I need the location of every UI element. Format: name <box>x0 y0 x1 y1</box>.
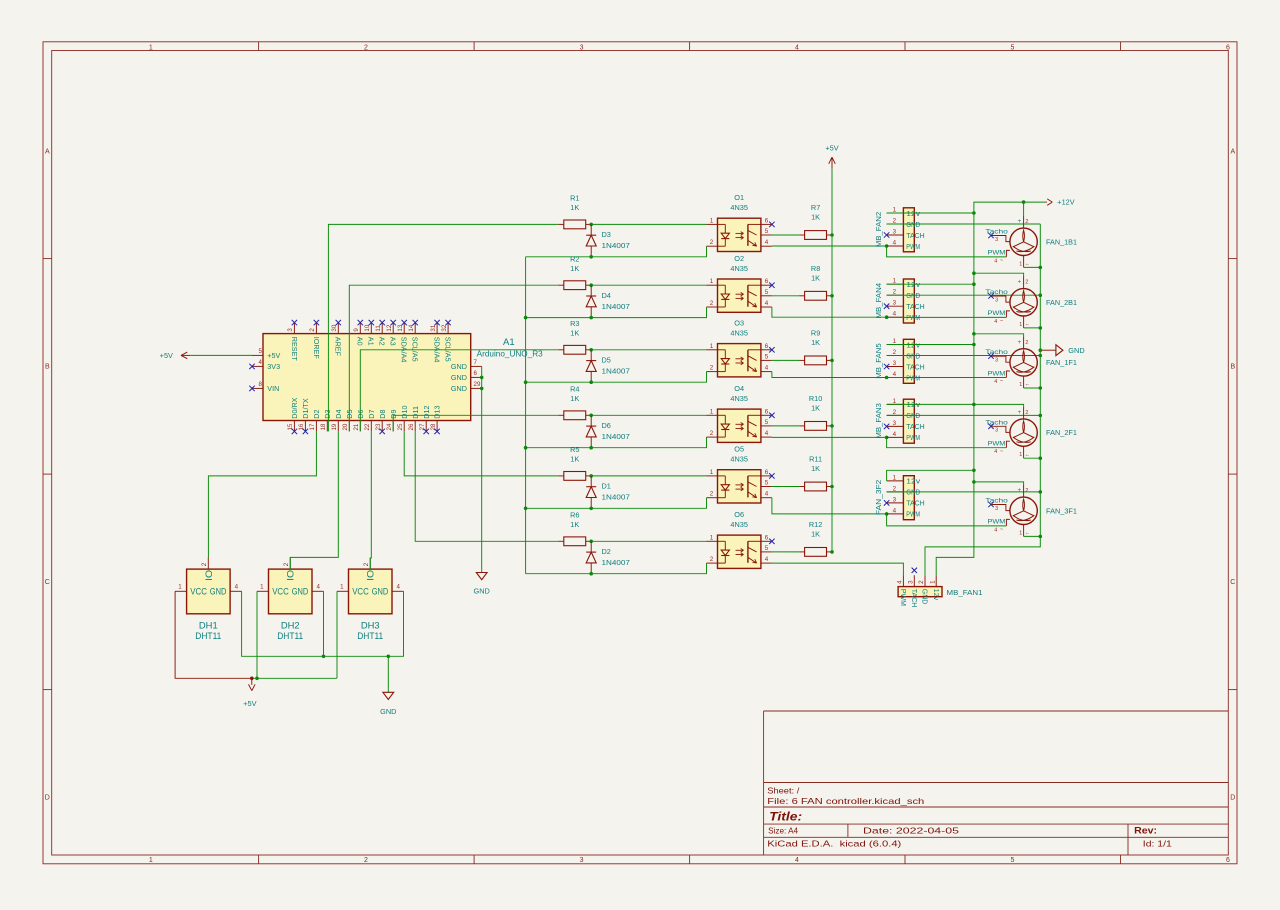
svg-text:4N35: 4N35 <box>730 394 748 403</box>
svg-text:4: 4 <box>795 857 799 864</box>
svg-text:B: B <box>1230 364 1235 371</box>
svg-text:19: 19 <box>331 423 338 430</box>
power symbol +5V left <box>160 351 191 360</box>
svg-text:GND: GND <box>451 373 467 382</box>
DHT11 sensor DH2 <box>257 558 324 642</box>
wire cathode bus row 1 <box>526 246 707 257</box>
no-connect MB_FAN2 pin3 TACH <box>884 232 889 237</box>
junction 12v rail MB_FAN3 <box>972 403 976 407</box>
svg-text:16: 16 <box>298 423 305 430</box>
junction D3 cathode bus <box>589 255 593 259</box>
svg-text:1N4007: 1N4007 <box>602 302 630 311</box>
svg-text:4: 4 <box>765 491 769 498</box>
junction DH2 vcc <box>255 677 259 681</box>
svg-text:18: 18 <box>320 423 327 430</box>
svg-text:A1: A1 <box>503 337 515 348</box>
svg-text:~: ~ <box>1000 258 1003 264</box>
svg-text:PWM: PWM <box>988 519 1006 526</box>
svg-text:+: + <box>1018 218 1022 225</box>
svg-text:4: 4 <box>316 583 320 590</box>
svg-text:R2: R2 <box>570 254 579 263</box>
svg-text:R4: R4 <box>570 384 579 393</box>
svg-text:B: B <box>45 364 50 371</box>
svg-text:4N35: 4N35 <box>730 520 748 529</box>
svg-text:GND: GND <box>474 587 490 596</box>
svg-text:1K: 1K <box>811 529 820 538</box>
svg-text:~: ~ <box>1000 449 1003 455</box>
junction D1 cathode bus <box>589 507 593 511</box>
diode D3 1N4007 <box>586 224 630 256</box>
svg-text:5: 5 <box>1011 44 1015 51</box>
arduino top pins (no-connect) <box>287 320 452 362</box>
diode D4 1N4007 <box>586 285 630 317</box>
svg-text:2: 2 <box>363 562 370 566</box>
svg-text:1N4007: 1N4007 <box>602 432 630 441</box>
wire gnd rail <box>925 224 1040 575</box>
wire FAN_3F2 GND to rail <box>887 491 1041 493</box>
svg-text:A0: A0 <box>356 337 365 346</box>
resistor R8 1K <box>799 264 832 300</box>
svg-text:FAN_2B1: FAN_2B1 <box>1046 298 1077 307</box>
ground symbol below DHT <box>380 692 396 716</box>
no-connect fan FAN_2B1 tacho <box>988 293 993 298</box>
no-connect opto O2 pin6 <box>769 283 774 288</box>
fan motor FAN_1F1 <box>985 337 1077 388</box>
junction bus row 4 <box>524 446 528 450</box>
wire opto O4 pin4 to connector MB_FAN3 <box>772 436 887 438</box>
resistor R4 1K <box>558 384 591 419</box>
svg-text:C: C <box>1230 579 1235 586</box>
wire arduino D3 to R1 <box>328 224 558 431</box>
svg-text:D: D <box>45 795 50 802</box>
svg-text:4: 4 <box>994 527 997 533</box>
svg-text:1: 1 <box>893 474 897 481</box>
svg-text:5: 5 <box>1011 857 1015 864</box>
svg-text:MB_FAN2: MB_FAN2 <box>874 212 883 248</box>
wire fan FAN_1F1 gnd bracket <box>1024 387 1041 389</box>
svg-text:30: 30 <box>331 324 338 331</box>
svg-text:11: 11 <box>375 325 382 332</box>
svg-text:MB_FAN5: MB_FAN5 <box>874 343 883 379</box>
svg-text:File: 6 FAN controller.kicad_s: File: 6 FAN controller.kicad_sch <box>767 796 924 806</box>
svg-text:29: 29 <box>474 381 481 388</box>
junction D6 cathode bus <box>589 446 593 450</box>
svg-text:1: 1 <box>710 534 714 541</box>
svg-text:A: A <box>1230 148 1235 155</box>
power symbol +5V bottom <box>243 678 256 708</box>
svg-text:14: 14 <box>408 324 415 331</box>
svg-text:R11: R11 <box>809 455 822 464</box>
svg-text:PWM: PWM <box>899 589 906 606</box>
junction gnd symbol <box>1039 348 1043 352</box>
svg-text:2: 2 <box>201 562 208 566</box>
svg-text:SCL/A5: SCL/A5 <box>444 337 453 362</box>
svg-text:31: 31 <box>430 324 437 331</box>
resistor R1 1K <box>558 194 591 229</box>
diode D1 1N4007 <box>586 476 630 508</box>
svg-text:5: 5 <box>765 353 769 360</box>
svg-text:R7: R7 <box>811 203 820 212</box>
junction R5-D1 <box>589 474 593 478</box>
svg-text:VCC: VCC <box>190 586 207 596</box>
svg-text:IO: IO <box>204 570 214 581</box>
opto-coupler O1 4N35 <box>707 193 772 252</box>
svg-text:←: ← <box>1025 530 1030 536</box>
wire fan FAN_1F1 pwm <box>887 377 1007 379</box>
svg-text:28: 28 <box>430 423 437 430</box>
svg-text:4: 4 <box>765 300 769 307</box>
svg-text:2: 2 <box>710 300 714 307</box>
resistor R9 1K <box>799 328 832 364</box>
svg-text:D0/RX: D0/RX <box>290 397 299 418</box>
no-connect MB_FAN1 pin3 <box>912 568 917 573</box>
svg-text:GND: GND <box>451 362 467 371</box>
svg-text:4: 4 <box>994 379 997 385</box>
svg-text:PWM: PWM <box>988 310 1006 317</box>
arduino U-module A1 body <box>263 334 471 421</box>
svg-text:4: 4 <box>893 507 897 514</box>
svg-text:1: 1 <box>149 44 153 51</box>
svg-text:1: 1 <box>929 580 936 584</box>
svg-text:12v: 12v <box>932 589 939 601</box>
no-connect fan FAN_1F1 tacho <box>988 353 993 358</box>
wire fan FAN_2B1 gnd bracket <box>1024 327 1041 329</box>
svg-text:3: 3 <box>580 857 584 864</box>
wire R5 to opto O5 pin1 <box>591 475 706 477</box>
svg-text:4: 4 <box>897 580 904 584</box>
wire opto pin5 to R9 <box>772 359 799 361</box>
junction R1-D3 <box>589 223 593 227</box>
svg-text:+5V: +5V <box>267 351 280 360</box>
svg-text:VCC: VCC <box>272 586 289 596</box>
svg-text:13: 13 <box>397 324 404 331</box>
svg-text:2: 2 <box>710 239 714 246</box>
svg-text:O6: O6 <box>734 510 744 519</box>
svg-text:8: 8 <box>259 381 263 388</box>
fan motor FAN_2B1 <box>985 277 1077 328</box>
svg-text:GND: GND <box>292 586 309 596</box>
junction gnd symbol drop <box>387 655 391 659</box>
ground symbol right <box>1040 345 1084 356</box>
wire DHT vcc bus red <box>175 591 252 678</box>
junction R4-D6 <box>589 414 593 418</box>
wire D7 to DH3 IO <box>370 431 371 569</box>
opto-coupler O2 4N35 <box>707 254 772 313</box>
svg-text:23: 23 <box>375 423 382 430</box>
junction fan FAN_1B1 gnd <box>1039 266 1043 270</box>
svg-text:FAN_3F2: FAN_3F2 <box>874 480 883 516</box>
svg-text:22: 22 <box>364 423 371 430</box>
svg-text:3: 3 <box>893 420 897 427</box>
svg-text:TACH: TACH <box>906 422 924 431</box>
svg-text:3: 3 <box>995 237 998 243</box>
junction fan FAN_2B1 gnd <box>1039 326 1043 330</box>
wire FAN_3F2 12v to rail <box>887 470 974 481</box>
junction R10 +5V rail <box>830 424 834 428</box>
wire opto pin5 to R12 <box>772 551 799 553</box>
wire fan FAN_3F1 +12v feed <box>974 482 1024 485</box>
svg-text:A1: A1 <box>367 337 376 346</box>
svg-text:D: D <box>1230 795 1235 802</box>
resistor R11 1K <box>799 455 832 491</box>
svg-text:1N4007: 1N4007 <box>602 493 630 502</box>
svg-text:DHT11: DHT11 <box>277 630 303 641</box>
svg-text:4: 4 <box>396 583 400 590</box>
svg-text:5: 5 <box>765 545 769 552</box>
svg-text:+5V: +5V <box>160 351 173 360</box>
no-connect fan FAN_2F1 tacho <box>988 424 993 429</box>
fan motor FAN_2F1 <box>985 407 1077 458</box>
wire fan FAN_1B1 gnd bracket <box>1024 266 1041 268</box>
svg-text:←: ← <box>1025 261 1030 267</box>
svg-text:MB_FAN1: MB_FAN1 <box>947 588 983 597</box>
svg-text:1K: 1K <box>570 455 579 464</box>
svg-text:AREF: AREF <box>334 337 343 357</box>
wire MB_FAN4 GND to rail <box>887 294 1041 296</box>
svg-text:R5: R5 <box>570 445 579 454</box>
svg-text:Date: 2022-04-05: Date: 2022-04-05 <box>863 826 959 836</box>
junction fan1 +12v <box>1022 200 1026 204</box>
svg-text:20: 20 <box>342 423 349 430</box>
wire fan FAN_3F1 pwm <box>887 514 1007 526</box>
wire R4 to opto O4 pin1 <box>591 414 706 416</box>
svg-text:D3: D3 <box>323 409 332 418</box>
svg-text:O4: O4 <box>734 384 744 393</box>
svg-text:+5V: +5V <box>243 699 256 708</box>
svg-text:2: 2 <box>309 328 316 332</box>
svg-text:1: 1 <box>710 469 714 476</box>
svg-text:D2: D2 <box>602 547 611 556</box>
svg-text:O1: O1 <box>734 193 744 202</box>
junction R7 +5V rail <box>830 233 834 237</box>
svg-text:RESET: RESET <box>290 337 299 362</box>
svg-text:5: 5 <box>765 419 769 426</box>
svg-text:17: 17 <box>309 423 316 430</box>
svg-text:PWM: PWM <box>906 242 920 251</box>
svg-text:27: 27 <box>419 423 426 430</box>
svg-text:3: 3 <box>995 297 998 303</box>
svg-text:12v: 12v <box>906 477 920 486</box>
svg-text:3: 3 <box>893 360 897 367</box>
svg-text:FAN_1F1: FAN_1F1 <box>1046 358 1077 367</box>
junction D4 cathode bus <box>589 316 593 320</box>
svg-text:+: + <box>1018 409 1022 416</box>
svg-text:25: 25 <box>397 423 404 430</box>
wire R2 to opto O2 pin1 <box>591 284 706 286</box>
svg-text:3V3: 3V3 <box>267 362 280 371</box>
svg-text:D4: D4 <box>602 291 611 300</box>
svg-text:2: 2 <box>893 289 897 296</box>
svg-text:2: 2 <box>1025 410 1028 416</box>
junction gnd rail MB_FAN5 <box>1039 354 1043 358</box>
opto-coupler O4 4N35 <box>707 384 772 443</box>
junction R6-D2 <box>589 540 593 544</box>
svg-text:3: 3 <box>893 228 897 235</box>
svg-text:3: 3 <box>907 580 914 584</box>
wire +5V to arduino pin5 <box>190 354 252 356</box>
junction +12v feed FAN_2B1 <box>972 271 976 275</box>
svg-text:26: 26 <box>408 423 415 430</box>
wire cathode bus row 6 <box>526 563 707 574</box>
svg-text:6: 6 <box>765 408 769 415</box>
svg-text:1K: 1K <box>811 273 820 282</box>
wire fan FAN_3F1 gnd bracket <box>1024 535 1041 537</box>
svg-text:DHT11: DHT11 <box>195 630 221 641</box>
svg-text:5: 5 <box>765 480 769 487</box>
wire MB_FAN2 GND to rail <box>887 223 1041 225</box>
svg-text:4: 4 <box>765 365 769 372</box>
svg-text:1: 1 <box>1019 530 1022 536</box>
resistor R10 1K <box>799 394 832 430</box>
junction R11 +5V rail <box>830 485 834 489</box>
svg-text:O2: O2 <box>734 254 744 263</box>
svg-text:PWM: PWM <box>988 250 1006 257</box>
svg-text:1: 1 <box>893 338 897 345</box>
svg-text:6: 6 <box>765 278 769 285</box>
svg-text:1: 1 <box>260 583 264 590</box>
wire arduino GND bracket <box>481 366 483 572</box>
svg-text:6: 6 <box>474 370 478 377</box>
junction +12v feed FAN_1F1 <box>972 332 976 336</box>
wire cathode bus row 5 <box>526 498 707 509</box>
wire fan FAN_2F1 gnd bracket <box>1024 457 1041 459</box>
svg-text:1: 1 <box>710 217 714 224</box>
svg-text:1: 1 <box>149 857 153 864</box>
wire R6 to opto O6 pin1 <box>591 540 706 542</box>
junction 12v rail MB_FAN5 <box>972 343 976 347</box>
wire R3 to opto O3 pin1 <box>591 349 706 351</box>
fan motor FAN_1B1 <box>985 216 1077 267</box>
wire R1 to opto O1 pin1 <box>591 223 706 225</box>
power symbol +5V top <box>825 143 838 168</box>
wire arduino D9 to R4 <box>393 415 558 431</box>
svg-text:MB_FAN3: MB_FAN3 <box>874 403 883 439</box>
wire opto O6 pin4 to MB_FAN1 PWM <box>772 563 904 575</box>
title block <box>764 711 1229 855</box>
svg-text:4N35: 4N35 <box>730 203 748 212</box>
svg-text:1N4007: 1N4007 <box>602 558 630 567</box>
svg-text:D2: D2 <box>312 409 321 418</box>
svg-text:~: ~ <box>1000 527 1003 533</box>
svg-text:R12: R12 <box>809 520 822 529</box>
svg-text:2: 2 <box>1025 219 1028 225</box>
wire opto pin5 to R10 <box>772 425 799 427</box>
ground symbol below arduino <box>474 573 490 596</box>
svg-text:FAN_3F1: FAN_3F1 <box>1046 506 1077 515</box>
svg-text:R8: R8 <box>811 264 820 273</box>
arduino A1 value Arduino_UNO_R3 <box>477 349 543 359</box>
svg-text:2: 2 <box>893 409 897 416</box>
junction R2-D4 <box>589 283 593 287</box>
svg-text:2: 2 <box>1025 488 1028 494</box>
svg-text:R1: R1 <box>570 194 579 203</box>
svg-text:4: 4 <box>765 239 769 246</box>
svg-text:DH2: DH2 <box>281 619 300 630</box>
svg-text:2: 2 <box>364 857 368 864</box>
connector MB_FAN3 4-pin <box>874 398 925 443</box>
svg-text:1K: 1K <box>570 264 579 273</box>
resistor R6 1K <box>558 510 591 545</box>
svg-text:Size: A4: Size: A4 <box>768 826 798 836</box>
junction vcc +5V <box>250 677 254 681</box>
svg-text:TACH: TACH <box>906 499 924 508</box>
wire opto O1 pin4 to connector MB_FAN2 <box>772 245 887 247</box>
wire MB_FAN3 12v to rail <box>887 403 974 405</box>
svg-text:TACH: TACH <box>906 302 924 311</box>
opto-coupler O3 4N35 <box>707 318 772 377</box>
wire cathode bus row 2 <box>526 307 707 318</box>
wire +5V rail <box>831 169 833 552</box>
junction PWM MB_FAN5 <box>885 376 889 380</box>
svg-text:2: 2 <box>1025 280 1028 286</box>
wire cathode bus row 4 <box>526 437 707 448</box>
svg-text:4N35: 4N35 <box>730 329 748 338</box>
svg-text:D3: D3 <box>602 230 611 239</box>
svg-text:+: + <box>1018 487 1022 494</box>
opto-coupler O5 4N35 <box>707 445 772 504</box>
svg-text:6: 6 <box>765 469 769 476</box>
junction fan FAN_1F1 gnd <box>1039 386 1043 390</box>
svg-text:2: 2 <box>918 580 925 584</box>
svg-text:1: 1 <box>1019 452 1022 458</box>
svg-text:3: 3 <box>995 358 998 364</box>
svg-text:15: 15 <box>287 423 294 430</box>
junction D2 cathode bus <box>589 572 593 576</box>
svg-text:+: + <box>1018 279 1022 286</box>
svg-text:32: 32 <box>441 324 448 331</box>
connector MB_FAN1 4-pin <box>897 575 983 607</box>
diode D5 1N4007 <box>586 350 630 382</box>
svg-text:4: 4 <box>994 449 997 455</box>
wire opto O3 pin4 to connector MB_FAN5 <box>772 372 887 378</box>
svg-text:1K: 1K <box>811 464 820 473</box>
svg-text:DH1: DH1 <box>199 619 218 630</box>
svg-text:4N35: 4N35 <box>730 264 748 273</box>
junction R12 +5V rail <box>830 550 834 554</box>
svg-text:DHT11: DHT11 <box>357 630 383 641</box>
junction bus row 2 <box>524 316 528 320</box>
svg-text:VCC: VCC <box>352 586 369 596</box>
svg-text:A2: A2 <box>378 337 387 346</box>
svg-text:Tacho: Tacho <box>985 289 1008 296</box>
svg-text:D4: D4 <box>334 409 343 418</box>
no-connect FAN_3F2 pin3 TACH <box>884 500 889 505</box>
no-connect MB_FAN3 pin3 TACH <box>884 424 889 429</box>
svg-text:GND: GND <box>451 384 467 393</box>
arduino left pins +5V 3V3 VIN <box>249 348 280 393</box>
svg-text:D10: D10 <box>400 406 409 419</box>
svg-text:1: 1 <box>710 278 714 285</box>
svg-text:1: 1 <box>1019 322 1022 328</box>
svg-text:1: 1 <box>340 583 344 590</box>
svg-text:10: 10 <box>364 324 371 331</box>
svg-text:PWM: PWM <box>988 370 1006 377</box>
svg-text:GND: GND <box>210 586 227 596</box>
svg-text:D13: D13 <box>433 406 442 419</box>
no-connect opto O3 pin6 <box>769 347 774 352</box>
svg-text:A3: A3 <box>389 337 398 346</box>
junction D5 cathode bus <box>589 380 593 384</box>
fan motor FAN_3F1 <box>985 485 1077 536</box>
junction 12v rail FAN_3F2 <box>972 469 976 473</box>
svg-text:TACH: TACH <box>906 362 924 371</box>
svg-text:Title:: Title: <box>769 810 802 824</box>
svg-text:R3: R3 <box>570 319 579 328</box>
svg-text:1K: 1K <box>570 394 579 403</box>
svg-text:4: 4 <box>259 359 263 366</box>
svg-text:GND: GND <box>380 707 396 716</box>
svg-text:R10: R10 <box>809 394 822 403</box>
